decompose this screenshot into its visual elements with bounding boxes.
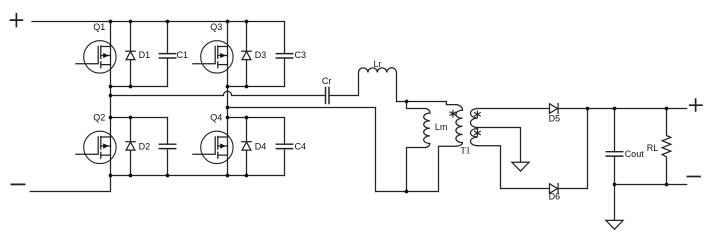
diode D3 [242, 51, 251, 59]
wire: output bottom rail [615, 184, 687, 186]
wire: Q1 drain-source leg [110, 22, 112, 87]
junction dots: lower cell bottom rail [109, 174, 249, 178]
wire: node A horizontal to crossover [111, 95, 224, 97]
wire: D3 branch [246, 22, 248, 87]
capacitor C4 [276, 144, 292, 148]
terminal - (input, left) [11, 183, 24, 185]
svg-text:Lm: Lm [435, 122, 448, 132]
junction dot: Cout bottom [613, 183, 617, 187]
wire: center tap to ground [478, 128, 521, 163]
svg-text:RL: RL [647, 143, 659, 153]
svg-text:D5: D5 [549, 113, 561, 123]
wire: negative input rail [30, 176, 110, 192]
svg-text:Lr: Lr [374, 59, 382, 69]
svg-text:Q2: Q2 [93, 112, 105, 122]
svg-text:C3: C3 [295, 50, 307, 60]
svg-text:D2: D2 [139, 141, 151, 151]
junction dots: lower cell tops [109, 116, 249, 120]
wire: C2 branch [167, 118, 169, 176]
junction dot: node A tap [109, 94, 113, 98]
wire: transformer bottom link [376, 191, 439, 193]
wire: Q2 drain-source leg [110, 118, 112, 176]
resistor RL [662, 109, 671, 185]
wire: Cr to Lr [329, 95, 359, 97]
capacitor C2 [159, 144, 175, 148]
junction dots: upper cell bottoms [109, 85, 249, 89]
ground: center tap [512, 162, 529, 171]
wire: Lm bottom return [407, 148, 426, 192]
wire: Q1 cell bottom rail [111, 86, 168, 88]
wire: C3 branch [284, 22, 286, 87]
wire: C4 branch [284, 118, 286, 176]
svg-text:D4: D4 [255, 141, 267, 151]
junction node: Lr/Lm/primary [405, 100, 409, 104]
transistor Q4 [193, 131, 233, 163]
wire: Cout branch [614, 109, 616, 185]
junction dot: node B tap [226, 106, 230, 110]
wire: Lr to transformer primary [397, 101, 447, 103]
junction dot: RL top [665, 107, 669, 111]
diode D5 [550, 104, 559, 114]
svg-text:Q3: Q3 [210, 22, 222, 32]
svg-text:Q1: Q1 [93, 22, 105, 32]
wire: Lm top step [407, 102, 426, 109]
wire: C1 branch [167, 22, 169, 87]
wire: node A to Cr [232, 95, 326, 97]
capacitor C1 [159, 54, 175, 58]
svg-text:T1: T1 [460, 146, 471, 156]
wire: node B leg between cells [227, 87, 229, 118]
transistor Q2 [76, 131, 116, 163]
junction dot: rectifier join [586, 107, 590, 111]
wire: Q4 drain-source leg [227, 118, 229, 176]
svg-text:D1: D1 [139, 50, 151, 60]
inductor Lm [424, 108, 430, 147]
junction dot: bottom link / Lm return [405, 190, 409, 194]
wire: D2 branch [130, 118, 132, 176]
terminal + (output, right) [690, 99, 702, 111]
svg-text:C1: C1 [177, 50, 189, 60]
wire: D4 branch [246, 118, 248, 176]
junction dots: top rail [109, 20, 249, 24]
terminal + (input, left) [11, 14, 23, 27]
wire: Q3 cell bottom rail [228, 86, 285, 88]
svg-text:D3: D3 [255, 50, 267, 60]
wire: top positive rail [32, 21, 285, 23]
svg-text:Cout: Cout [625, 149, 645, 159]
junction dot: RL bottom [665, 183, 669, 187]
wire: node A leg between cells [110, 87, 112, 118]
polarity mark: primary [450, 110, 456, 117]
wire: D6 cathode to join [558, 188, 587, 190]
wire: D1 branch [130, 22, 132, 87]
svg-text:Q4: Q4 [210, 112, 222, 122]
wire: Q2 cell top rail [111, 117, 168, 119]
wire: secondary bottom to D6 leg [478, 146, 501, 189]
ground: output [606, 220, 623, 229]
diode D2 [126, 142, 135, 150]
transformer T1 secondary winding S1 + wire to D5 [471, 109, 550, 128]
wire: rectifier join vertical [587, 109, 589, 189]
transformer T1 primary winding [456, 105, 463, 147]
wire: primary bottom return [439, 146, 457, 191]
wire: node B horizontal [228, 107, 376, 109]
transistor Q1 [76, 41, 116, 73]
wire: crossover hop at Q3 leg [223, 91, 231, 95]
polarity mark: secondary lower [475, 130, 481, 137]
wire: Cout ground stub [614, 185, 616, 221]
diode D6 [550, 184, 559, 194]
polarity mark: secondary top [475, 111, 481, 118]
wire: primary top step [446, 102, 455, 105]
svg-text:Cr: Cr [322, 76, 332, 86]
wire: node B down leg [375, 108, 377, 192]
capacitor Cout [606, 152, 622, 156]
wire: Q4 cell top rail [228, 117, 285, 119]
transformer T1 secondary winding S2 [471, 129, 478, 146]
transistor Q3 [193, 41, 233, 73]
junction dot: Cout top [613, 107, 617, 111]
wire: D6 anode [501, 188, 550, 190]
svg-text:D6: D6 [549, 192, 561, 202]
inductor Lr [359, 68, 397, 102]
wire: lower cells bottom rail [111, 175, 285, 177]
capacitor Cr [326, 88, 330, 104]
wire: output top rail [558, 108, 687, 110]
wire: Q3 drain-source leg [227, 22, 229, 87]
terminal - (output, right) [687, 176, 700, 178]
capacitor C3 [276, 54, 292, 58]
diode D1 [126, 51, 135, 59]
svg-text:C4: C4 [295, 141, 307, 151]
diode D4 [242, 142, 251, 150]
